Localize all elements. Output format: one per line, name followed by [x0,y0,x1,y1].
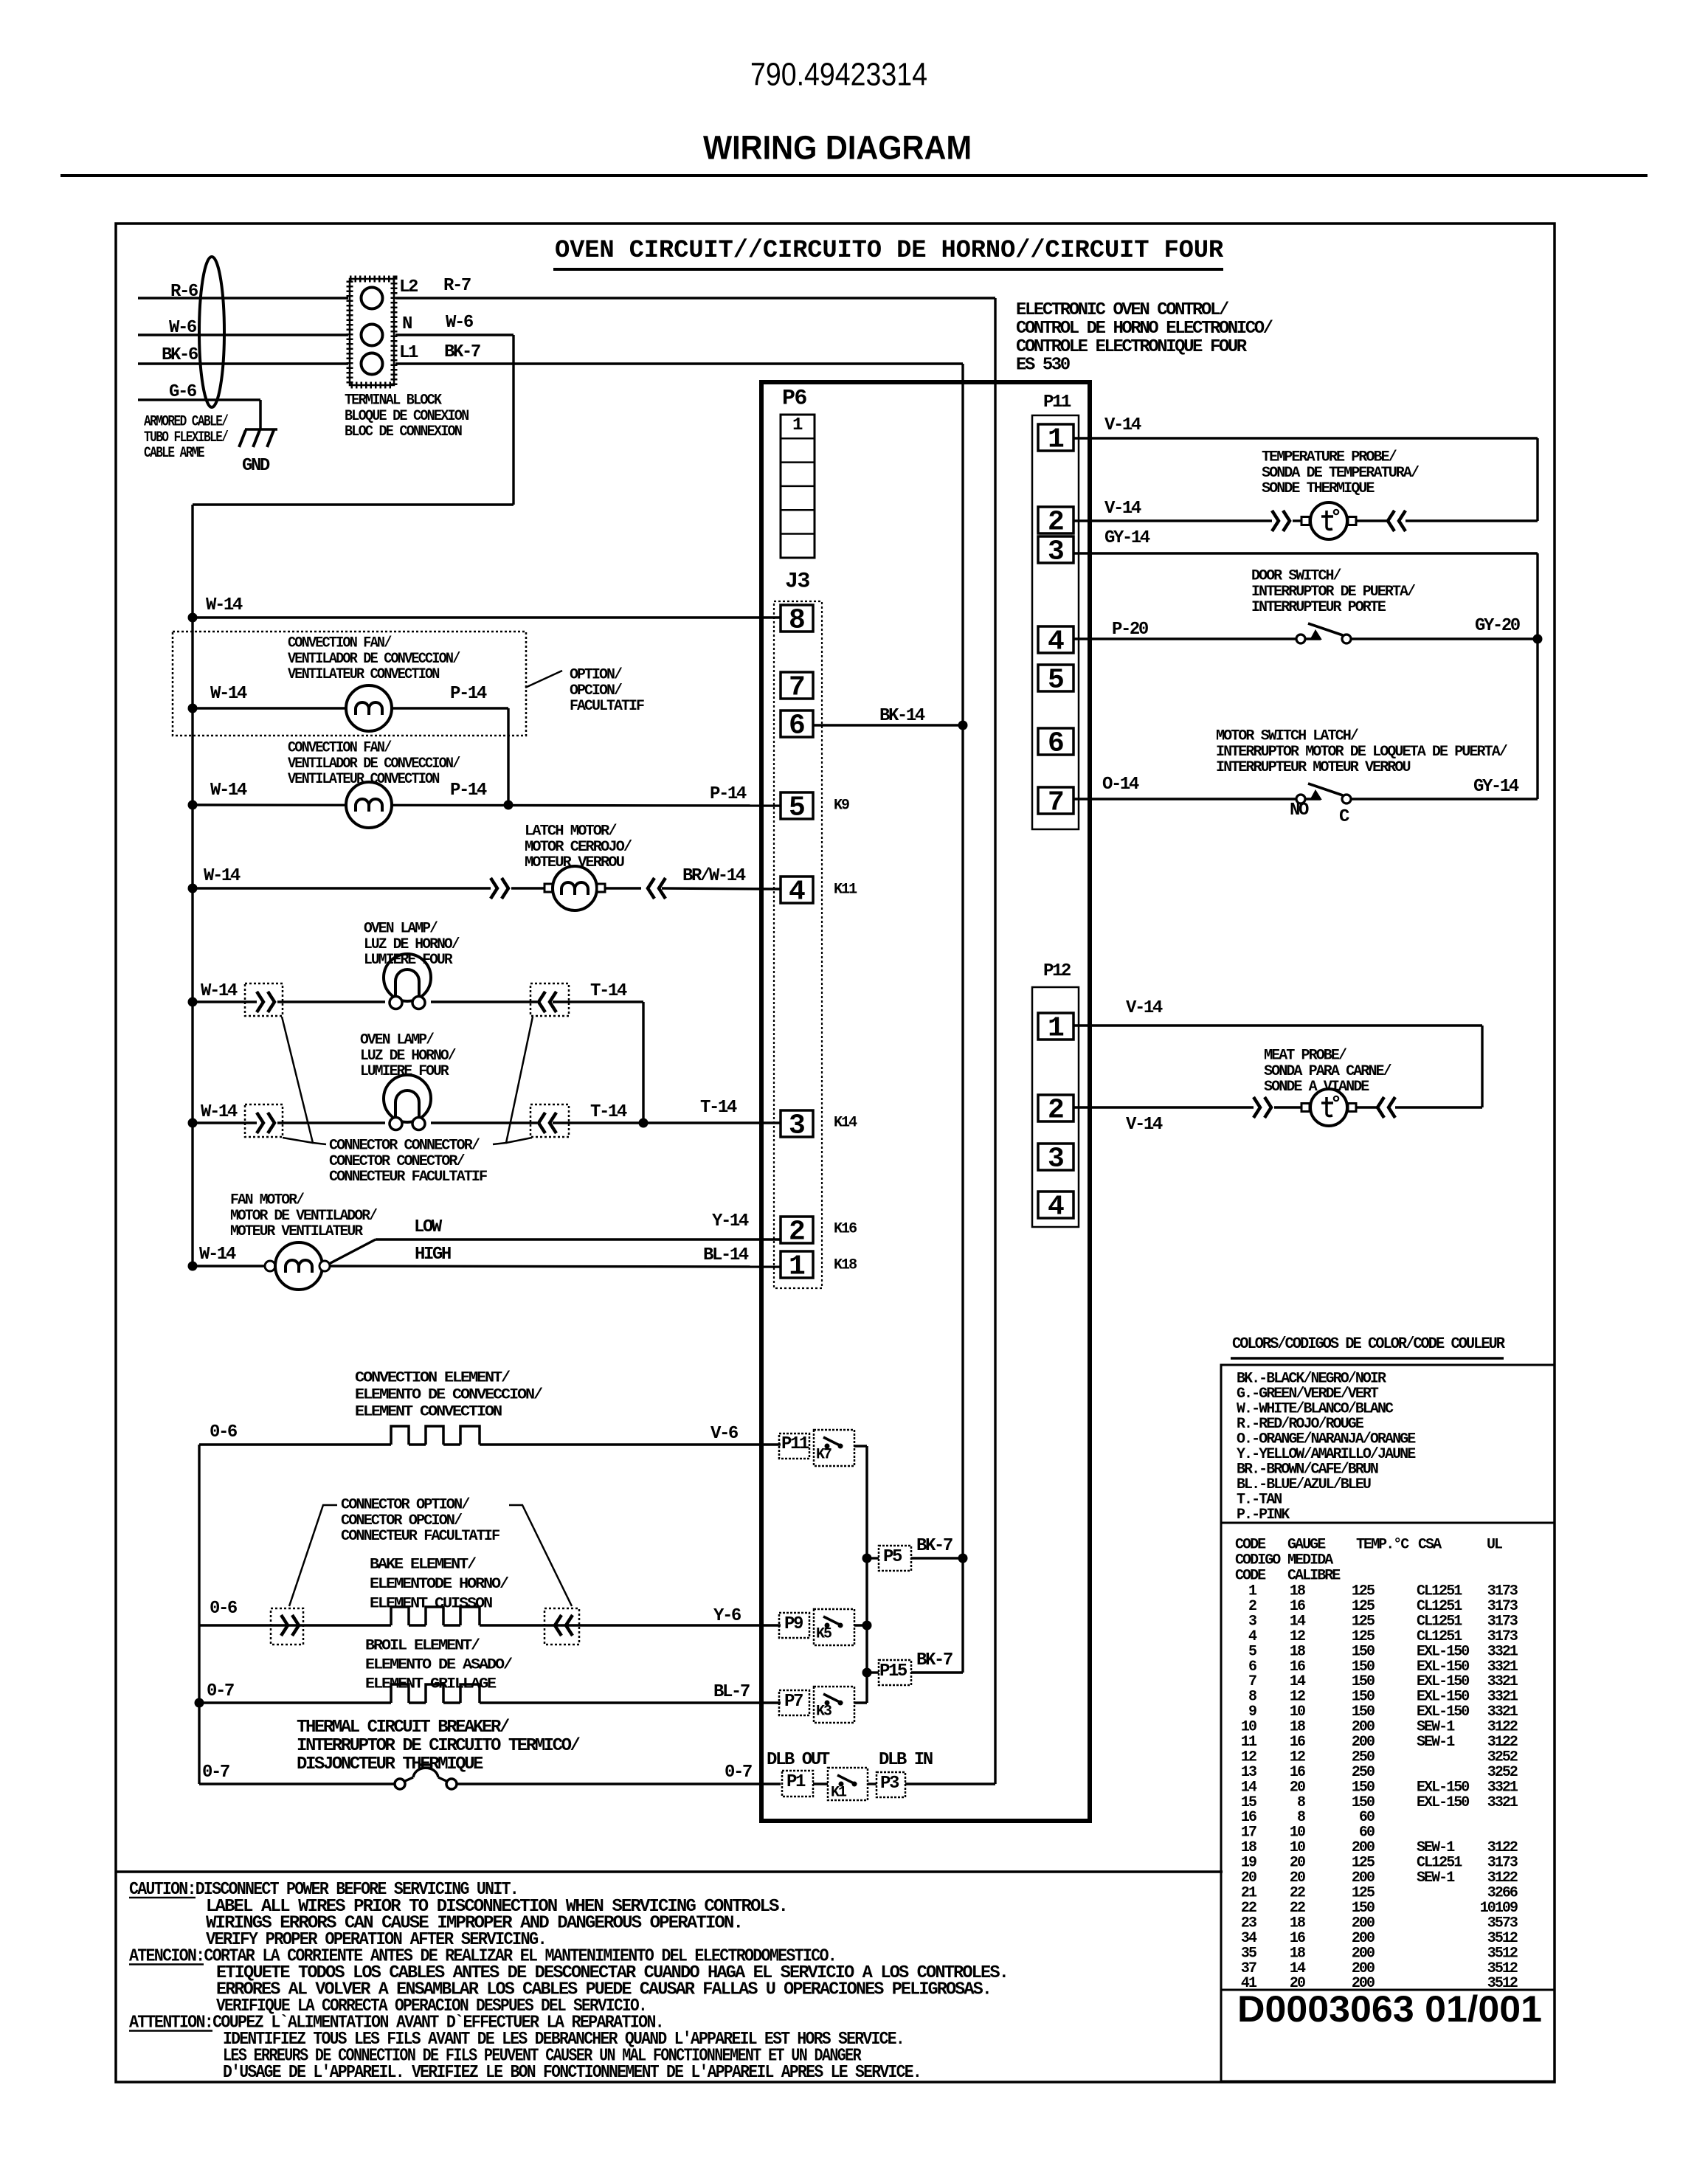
svg-text:W-14: W-14 [204,866,241,886]
svg-text:WIRING DIAGRAM: WIRING DIAGRAM [703,128,972,166]
P11 pin 3 box [1038,536,1073,563]
svg-text:J3: J3 [785,569,809,594]
svg-text:COLORS/CODIGOS DE COLOR/CODE C: COLORS/CODIGOS DE COLOR/CODE COULEUR [1232,1335,1506,1353]
junction W-14 / conv fan 1 [188,704,198,713]
svg-text:K9: K9 [834,798,849,815]
P12 pin 2 box [1038,1095,1073,1121]
svg-text:BLOC DE CONNEXION: BLOC DE CONNEXION [345,423,462,440]
wire GY-14 P11-3 loop [1073,552,1538,554]
main border frame [116,224,1555,2082]
svg-text:BK-7: BK-7 [444,342,480,362]
connector P5 box [867,1557,879,1559]
convection element [391,1426,409,1445]
junction W-14 / conv fan 2 [188,801,198,810]
svg-text:BL-14: BL-14 [703,1245,749,1265]
svg-text:W-14: W-14 [210,781,247,801]
wire W-6 right [395,333,514,336]
wire K5 out [854,1624,867,1626]
svg-text:P-14: P-14 [450,684,487,704]
svg-text:1: 1 [1048,424,1065,456]
fan motor pin left [265,1261,275,1271]
J3 pin 6 box [781,710,813,737]
svg-text:DISJONCTEUR THERMIQUE: DISJONCTEUR THERMIQUE [297,1754,483,1774]
svg-text:LUMIERE FOUR: LUMIERE FOUR [360,1063,449,1080]
svg-text:VENTILADOR DE CONVECCION/: VENTILADOR DE CONVECCION/ [288,651,460,668]
svg-text:6: 6 [789,710,806,742]
wire convection fan 1 [193,707,508,709]
svg-text:BK-6: BK-6 [162,345,198,365]
P11 pin 2 box [1038,507,1073,533]
junction BK-7 bus / P5 [958,1554,968,1563]
wire V-14 P11-1 loop [1073,437,1538,439]
svg-text:LUZ DE HORNO/: LUZ DE HORNO/ [364,936,460,953]
connector arrows meat probe left [1254,1097,1260,1118]
svg-text:P1: P1 [786,1772,806,1792]
wire LOW branch diagonal [329,1239,376,1264]
svg-text:BK-7: BK-7 [916,1650,952,1670]
svg-text:2: 2 [789,1217,806,1248]
P12 pin 1 box [1038,1013,1073,1040]
wire W-6 return [193,503,514,505]
P11 pin 1 box [1038,424,1073,451]
svg-text:CABLE ARME: CABLE ARME [144,445,205,462]
connector arrows temp probe right [1388,511,1394,531]
svg-text:R-7: R-7 [443,276,471,296]
connector arrows meat probe right [1377,1097,1384,1118]
wire T-14 lamp1 to drop [553,1000,643,1003]
svg-text:P11: P11 [1043,393,1071,412]
connector arrows lamp1 right [539,992,545,1012]
wire K3 out [854,1701,867,1704]
J3 pin 1 box [781,1251,813,1278]
svg-text:MOTOR DE VENTILADOR/: MOTOR DE VENTILADOR/ [230,1208,378,1225]
terminal N [362,325,383,346]
ground symbol GND [245,428,277,431]
junction relay bus / P5 [862,1554,872,1563]
J3 pin 8 box [781,605,813,632]
convection fan motor 1 [346,685,392,731]
latch motor pin right [597,884,605,892]
svg-text:W-6: W-6 [446,313,474,333]
svg-text:SEW-1: SEW-1 [1417,1734,1455,1751]
wire gauge table box [1221,1523,1555,1990]
wire R-7 [395,297,995,299]
relay contact K7 [825,1444,830,1449]
svg-text:MOTOR SWITCH LATCH/: MOTOR SWITCH LATCH/ [1216,728,1359,745]
svg-text:OPTION/: OPTION/ [570,667,623,684]
svg-text:W-14: W-14 [201,981,238,1001]
connector P9 box [779,1613,809,1638]
svg-text:K16: K16 [834,1221,857,1238]
connector arrows latch in [491,878,497,899]
svg-text:GY-14: GY-14 [1104,528,1150,548]
wire relay output bus [865,1446,868,1703]
connector box lamp2 right [530,1104,569,1137]
svg-text:P-20: P-20 [1112,620,1149,640]
svg-text:1: 1 [1048,1013,1065,1045]
svg-text:TUBO FLEXIBLE/: TUBO FLEXIBLE/ [144,429,229,446]
svg-text:W-14: W-14 [210,684,247,704]
wire P15 BK-7 [911,1671,963,1673]
svg-text:BAKE ELEMENT/: BAKE ELEMENT/ [370,1557,477,1574]
title underline [553,268,1223,271]
connector arrows lamp2 left [257,1113,263,1133]
svg-text:DLB OUT: DLB OUT [767,1750,830,1770]
svg-text:P-14: P-14 [450,781,487,801]
svg-text:BK-14: BK-14 [879,706,925,726]
connector arrows bake right [555,1615,561,1636]
wire R-7 vertical bus [994,298,996,1784]
oven lamp 1 [384,954,431,1001]
svg-text:INTERRUPTOR DE CIRCUITO TERMIC: INTERRUPTOR DE CIRCUITO TERMICO/ [297,1736,581,1756]
svg-text:1: 1 [789,1251,806,1283]
svg-text:W-14: W-14 [199,1245,236,1265]
wire W-6 vertical [512,335,514,505]
junction 0-7 bus / broil [195,1698,204,1708]
svg-text:ELECTRONIC OVEN CONTROL/: ELECTRONIC OVEN CONTROL/ [1016,300,1229,320]
wire 0-7 breaker right to P1 [457,1782,781,1785]
svg-text:V-14: V-14 [1126,998,1163,1018]
connector P15 box [867,1671,879,1673]
svg-text:VENTILATEUR CONVECTION: VENTILATEUR CONVECTION [288,771,439,788]
svg-text:SONDA DE TEMPERATURA/: SONDA DE TEMPERATURA/ [1262,465,1420,482]
svg-text:K11: K11 [834,882,857,899]
svg-text:P6: P6 [782,386,806,411]
wire W-14 lamp 1 [193,1000,257,1003]
wire W-14 to J3-8 [193,616,781,618]
door switch [1296,634,1305,643]
P11 pin 5 box [1038,665,1073,691]
oven lamp 2 [384,1075,431,1122]
svg-text:CONTROL DE HORNO ELECTRONICO/: CONTROL DE HORNO ELECTRONICO/ [1016,319,1273,339]
wire K7 out [854,1445,867,1447]
junction GY-20 / GY-14 [1533,634,1543,644]
svg-text:L1: L1 [399,343,418,363]
terminal block [350,279,394,385]
wire latch stub [511,887,545,889]
svg-text:C: C [1339,807,1349,827]
svg-text:ELEMENTODE HORNO/: ELEMENTODE HORNO/ [370,1576,509,1593]
svg-text:DLB IN: DLB IN [879,1750,933,1770]
svg-text:CALIBRE: CALIBRE [1287,1568,1341,1585]
relay K5 box [814,1609,854,1645]
wire R-6 [138,297,348,299]
connector arrows lamp1 left [257,992,263,1012]
drawing number box [1221,1990,1555,2081]
junction relay bus / K5 [862,1621,872,1631]
P11 pin 4 box [1038,626,1073,653]
svg-text:T-14: T-14 [590,981,627,1001]
svg-text:BK-7: BK-7 [916,1536,952,1556]
svg-text:MOTEUR VENTILATEUR: MOTEUR VENTILATEUR [230,1223,363,1240]
wire W-14 lamp 2 [193,1121,257,1124]
wire lamp2 mid-left [277,1121,385,1124]
svg-text:4: 4 [789,876,806,908]
svg-text:CONVECTION ELEMENT/: CONVECTION ELEMENT/ [355,1370,511,1387]
svg-text:0-6: 0-6 [210,1599,238,1619]
svg-text:W-14: W-14 [201,1102,238,1122]
wire DLB IN to R-7 bus [905,1782,995,1785]
wire GY-14 motor switch [1350,798,1538,800]
wire BK-14 from J3-6 [813,724,963,726]
svg-text:V-6: V-6 [710,1424,739,1444]
broil element [391,1684,409,1703]
svg-text:G-6: G-6 [169,382,197,402]
svg-text:OVEN LAMP/: OVEN LAMP/ [360,1032,435,1049]
wire convection fan 2 P-14 to J3-5 [193,805,781,806]
latch motor [553,866,597,910]
relay K7 box [814,1430,854,1466]
svg-text:L2: L2 [399,277,418,297]
relay contact K1 [839,1782,844,1787]
svg-text:3: 3 [789,1110,806,1142]
svg-text:W-14: W-14 [206,595,243,615]
svg-text:ARMORED CABLE/: ARMORED CABLE/ [144,414,229,431]
connector J3 outline [774,601,822,1288]
connector option callout left [289,1505,337,1606]
svg-text:BLOQUE DE CONEXION: BLOQUE DE CONEXION [345,408,469,425]
junction W-14 / lamp 2 [188,1118,198,1128]
svg-text:THERMAL CIRCUIT BREAKER/: THERMAL CIRCUIT BREAKER/ [297,1718,510,1737]
wire LOW Y-14 to J3-2 [376,1238,781,1240]
wire T-14 vertical [642,1002,644,1123]
svg-text:INTERRUPTEUR PORTE: INTERRUPTEUR PORTE [1251,599,1386,616]
wire W-14 latch motor [193,887,491,889]
connector box lamp1 right [530,983,569,1016]
connector arrows bake left [281,1615,288,1636]
svg-text:4: 4 [1048,1192,1065,1223]
svg-text:T-14: T-14 [700,1098,737,1118]
svg-text:V-14: V-14 [1104,415,1141,435]
color code box [1221,1365,1555,1523]
svg-text:CODE: CODE [1235,1537,1266,1554]
svg-text:O-14: O-14 [1102,775,1139,795]
svg-text:5: 5 [1048,665,1065,696]
J3 pin 4 box [781,876,813,903]
temperature probe [1310,502,1347,539]
connector box lamp1 left [245,983,283,1016]
wire lamp2 mid-right [431,1121,537,1124]
electronic oven control board outline [761,382,1090,1821]
connector P1 box [782,1771,813,1797]
P12 pin 4 box [1038,1192,1073,1218]
svg-text:R-6: R-6 [170,282,198,302]
svg-text:CSA: CSA [1418,1537,1442,1554]
svg-text:P15: P15 [879,1661,907,1681]
svg-text:ELEMENTO DE ASADO/: ELEMENTO DE ASADO/ [365,1657,513,1674]
svg-text:K3: K3 [816,1704,831,1721]
latch motor pin left [544,884,553,892]
svg-text:CODIGO: CODIGO [1235,1552,1281,1569]
svg-text:5: 5 [789,792,806,824]
svg-text:EXL-150: EXL-150 [1417,1794,1469,1811]
junction W-14 / latch motor [188,884,198,893]
svg-text:3: 3 [1048,536,1065,568]
P12 pin 3 box [1038,1144,1073,1170]
J3 pin 7 box [781,672,813,699]
colors header underline [1231,1357,1504,1359]
relay K1 box [828,1768,868,1800]
svg-text:CONNECTEUR FACULTATIF: CONNECTEUR FACULTATIF [341,1528,499,1545]
svg-text:2: 2 [1048,1095,1065,1127]
svg-text:2: 2 [1048,507,1065,539]
svg-text:T-14: T-14 [590,1102,627,1122]
junction BK-14 / BK-7 bus [958,721,968,730]
convection fan motor 2 [346,782,392,828]
svg-text:OVEN LAMP/: OVEN LAMP/ [364,921,438,938]
junction W-14 bus / J3-8 [188,613,198,623]
svg-text:P9: P9 [784,1614,803,1634]
svg-text:V-14: V-14 [1104,499,1141,519]
svg-text:D'USAGE DE L'APPAREIL. VERIFIE: D'USAGE DE L'APPAREIL. VERIFIEZ LE BON F… [223,2063,921,2083]
thermal circuit breaker [395,1779,405,1789]
wire BK-7 vertical bus [961,364,964,1673]
svg-text:Y-14: Y-14 [712,1211,749,1231]
connector box bake right [544,1608,579,1645]
header rule [60,174,1648,177]
option callout line [525,671,562,688]
svg-text:TEMP.°C: TEMP.°C [1356,1537,1409,1554]
svg-text:P5: P5 [883,1547,902,1567]
svg-text:SEW-1: SEW-1 [1417,1870,1455,1887]
svg-text:LOW: LOW [414,1217,443,1237]
svg-text:P7: P7 [784,1692,803,1712]
svg-text:GAUGE: GAUGE [1287,1537,1326,1554]
connector callout lines left [282,1017,326,1144]
connector arrows temp probe left [1272,511,1279,531]
fan motor pin right [319,1261,330,1271]
svg-text:D0003063 01/001: D0003063 01/001 [1237,1988,1542,2030]
junction T-14 [639,1118,649,1128]
svg-text:HIGH: HIGH [415,1245,451,1265]
wire T-14 to J3-3 [553,1121,781,1124]
svg-text:ELEMENTO DE CONVECCION/: ELEMENTO DE CONVECCION/ [355,1387,543,1404]
connector P11 outline [1032,415,1079,829]
wire BK-7 [395,362,963,364]
wire W-6 [138,333,348,336]
wire 0-6/0-7 left bus [198,1445,200,1784]
terminal L1 [362,353,383,375]
junction conv fan outputs [504,801,514,810]
wire G-6 [138,398,260,401]
wire lamp1 mid-right [431,1000,537,1003]
svg-text:V-14: V-14 [1126,1115,1163,1135]
wire BK-6 [138,362,348,364]
svg-text:SONDA PARA CARNE/: SONDA PARA CARNE/ [1264,1063,1392,1080]
svg-text:CONECTOR CONECTOR/: CONECTOR CONECTOR/ [329,1153,466,1170]
connector box lamp2 left [245,1104,283,1137]
svg-text:8: 8 [789,605,806,637]
svg-text:CONECTOR OPCION/: CONECTOR OPCION/ [341,1512,463,1529]
bake element [391,1607,409,1625]
svg-text:W-6: W-6 [169,318,197,338]
svg-text:P11: P11 [781,1434,809,1454]
wire W-14 fan motor [193,1265,274,1267]
svg-text:UL: UL [1487,1537,1502,1554]
svg-text:790.49423314: 790.49423314 [750,57,927,93]
svg-text:P3: P3 [880,1774,899,1794]
svg-text:INTERRUPTEUR MOTEUR VERROU: INTERRUPTEUR MOTEUR VERROU [1216,759,1411,776]
svg-text:7: 7 [1048,787,1065,819]
relay contact K3 [825,1701,830,1706]
connector P11 (relay input) box [779,1434,809,1459]
svg-text:K1: K1 [831,1785,847,1802]
svg-text:BL-7: BL-7 [713,1682,750,1702]
junction W-14 / lamp 1 [188,997,198,1007]
svg-text:CONTROLE ELECTRONIQUE FOUR: CONTROLE ELECTRONIQUE FOUR [1016,337,1248,357]
svg-text:K14: K14 [834,1115,857,1132]
svg-text:LATCH MOTOR/: LATCH MOTOR/ [525,823,618,840]
svg-text:SONDE THERMIQUE: SONDE THERMIQUE [1262,480,1375,497]
wire conv fan 1 output drop [507,708,509,805]
svg-text:BROIL ELEMENT/: BROIL ELEMENT/ [365,1638,480,1655]
connector option callout right [509,1505,572,1606]
svg-text:CONVECTION FAN/: CONVECTION FAN/ [288,635,392,652]
svg-text:TEMPERATURE PROBE/: TEMPERATURE PROBE/ [1262,449,1397,466]
svg-text:CONVECTION FAN/: CONVECTION FAN/ [288,740,392,757]
svg-text:0-7: 0-7 [207,1681,234,1701]
svg-text:CODE: CODE [1235,1568,1266,1585]
wire lamp1 mid-left [277,1000,385,1003]
svg-text:K18: K18 [834,1257,857,1274]
option dashed box [173,632,526,736]
connector box bake left [271,1608,303,1645]
wire O-14 to motor switch [1073,798,1297,800]
relay K3 box [814,1687,854,1723]
svg-text:VENTILADOR DE CONVECCION/: VENTILADOR DE CONVECCION/ [288,755,460,772]
connector arrows lamp2 right [539,1113,545,1133]
svg-text:CONNECTOR OPTION/: CONNECTOR OPTION/ [341,1497,470,1514]
svg-text:INTERRUPTOR MOTOR DE LOQUETA D: INTERRUPTOR MOTOR DE LOQUETA DE PUERTA/ [1216,744,1508,761]
svg-text:P.-PINK: P.-PINK [1237,1507,1290,1524]
J3 pin 3 box [781,1110,813,1137]
svg-text:BR/W-14: BR/W-14 [682,866,746,886]
svg-text:MOTOR CERROJO/: MOTOR CERROJO/ [525,839,632,856]
svg-text:P-14: P-14 [710,784,747,804]
svg-text:ES 530: ES 530 [1016,356,1071,376]
connector P7 box [779,1690,809,1715]
svg-text:ELEMENT CUISSON: ELEMENT CUISSON [370,1596,492,1613]
connector callout lines right [493,1017,533,1144]
svg-text:CONNECTEUR FACULTATIF: CONNECTEUR FACULTATIF [329,1169,487,1186]
terminal L2 [362,288,383,309]
motor switch latch [1296,795,1305,803]
svg-text:ELEMENT CONVECTION: ELEMENT CONVECTION [355,1404,502,1421]
svg-text:MEDIDA: MEDIDA [1287,1552,1333,1569]
J3 pin 5 box [781,792,813,819]
relay contact K5 [825,1623,830,1628]
wire V-14 P12-1 loop [1073,1024,1482,1026]
svg-text:NO: NO [1290,801,1309,820]
wire GY-20 [1350,637,1538,640]
wire 0-6 / V-6 convection element [199,1443,391,1445]
svg-text:N: N [402,314,412,334]
wire V-14 P11-2 [1073,519,1272,522]
meat probe [1310,1089,1347,1126]
P11 pin 6 box [1038,728,1073,755]
wire P-20 to door switch [1073,637,1297,640]
svg-text:TERMINAL BLOCK: TERMINAL BLOCK [345,393,442,409]
svg-text:K7: K7 [816,1447,831,1464]
svg-text:FAN MOTOR/: FAN MOTOR/ [230,1192,305,1209]
svg-text:7: 7 [789,672,806,704]
svg-text:OPCION/: OPCION/ [570,682,623,699]
caution box divider [116,1870,1223,1873]
svg-text:P12: P12 [1043,961,1071,981]
wire latch stub right [605,887,641,889]
junction W-14 / fan motor [188,1262,198,1271]
svg-text:6: 6 [1048,728,1065,760]
